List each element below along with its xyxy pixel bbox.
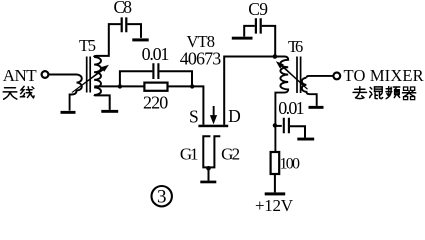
svg-text:C9: C9	[248, 0, 268, 19]
svg-text:0.01: 0.01	[278, 98, 304, 118]
svg-text:0.01: 0.01	[142, 44, 170, 64]
svg-text:100: 100	[280, 155, 301, 172]
svg-text:G2: G2	[221, 145, 240, 164]
svg-text:C8: C8	[114, 0, 133, 17]
svg-text:G1: G1	[180, 145, 199, 164]
svg-text:+12V: +12V	[255, 196, 294, 213]
svg-text:S: S	[189, 106, 199, 126]
svg-text:220: 220	[143, 93, 168, 113]
svg-text:D: D	[228, 106, 241, 126]
svg-text:T6: T6	[288, 37, 303, 56]
svg-text:TO MIXER: TO MIXER	[344, 66, 424, 85]
svg-text:3: 3	[157, 187, 167, 208]
svg-text:ANT: ANT	[3, 66, 37, 85]
svg-text:40673: 40673	[180, 48, 222, 68]
svg-text:T5: T5	[79, 36, 96, 55]
